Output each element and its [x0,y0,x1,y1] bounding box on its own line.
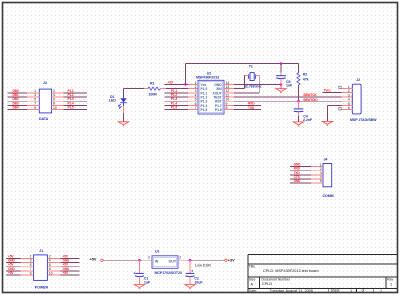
wire XOUT to crystal [234,76,259,93]
wire GND pin14 to C5 ground [234,83,281,85]
U2 right pin numbers 14-8 [226,81,230,110]
resistor R2 [297,64,309,102]
ground under C5 [276,85,286,92]
wire +3V stub to U2 pin1 [164,83,188,85]
svg-text:3: 3 [148,256,150,260]
connector J4 [323,157,334,198]
wire chip pin2 to LED [124,89,149,93]
wire +5V to U1 IN [103,259,152,261]
svg-text:R1: R1 [150,82,155,86]
svg-text:2: 2 [179,256,181,260]
svg-text:TXD: TXD [248,106,255,110]
svg-text:+3V: +3V [228,259,235,263]
svg-text:DATA: DATA [39,117,49,121]
J1 left pin numbers [30,255,32,276]
wire TEST/SBWTCK line [234,96,352,98]
svg-text:CPLD: CPLD [262,282,272,286]
svg-text:POWER: POWER [35,286,49,290]
net labels P1.1-P1.5 at U2 [171,89,177,110]
svg-text:U1: U1 [155,249,160,253]
J4 pin numbers [320,163,322,183]
J1 right net labels [63,254,71,275]
svg-text:10: 10 [53,106,57,110]
capacitor C1 [133,260,151,284]
J3 left wires pins 1,3,5,7,9 [8,93,40,110]
wire LED to ground [123,106,125,122]
junction R2/C4 on RST line [297,100,300,103]
svg-text:MCP1702/SOT23: MCP1702/SOT23 [155,271,182,275]
svg-text:COMM: COMM [323,194,334,198]
svg-text:LED: LED [109,99,116,103]
J4 net labels [294,163,302,183]
MCU U2 MSP430F2013 [195,71,230,114]
capacitor C2 [185,260,203,284]
svg-text:Sheet: Sheet [331,289,340,293]
svg-text:P1.6: P1.6 [215,108,222,112]
J2 pin2 wire TVcc [322,92,352,94]
svg-text:P1.5: P1.5 [171,106,177,110]
junction at pin1 vertical [184,83,187,86]
svg-text:47k: 47k [303,77,309,81]
J2 pin1 stub with no-connect [339,86,353,89]
J1 left wires [6,258,34,275]
capacitor C5 [276,64,293,88]
J3 right net labels P1.1-P1.5 [68,89,74,110]
svg-text:P1.5: P1.5 [201,108,208,112]
svg-text:1uF: 1uF [144,280,151,284]
wire U1 OUT to +3V [178,259,225,261]
svg-text:100R: 100R [149,93,158,97]
U2 right pin stubs [224,84,234,109]
J3 right pin numbers [53,89,57,110]
J2 pin6 stub with no-connect [339,107,353,110]
svg-text:SBWTCK: SBWTCK [303,93,317,97]
U2 pins 3-7 net stubs [164,93,188,110]
connector J2 [350,78,377,122]
ground symbol under D1 [118,122,128,126]
svg-text:Y1: Y1 [249,65,253,69]
connector J3 [39,81,52,121]
ground under J2 pin5 [322,121,332,125]
J4 wires pins 1-5 [290,167,323,183]
svg-text:Tuesday, August 11, 2009: Tuesday, August 11, 2009 [270,289,313,293]
svg-text:1nF: 1nF [286,84,293,88]
svg-text:TVcc: TVcc [324,89,331,93]
connector J1 [34,249,49,290]
resistor R1 [148,82,161,97]
J1 right pin numbers [49,255,53,276]
svg-text:J1: J1 [39,249,43,253]
ground under C2 [185,285,195,289]
svg-text:Size: Size [249,278,256,282]
J2 pin5 wire to ground [327,105,341,121]
svg-text:OUT: OUT [169,260,177,264]
svg-text:CPLD: MSP430F2013 test board: CPLD: MSP430F2013 test board [263,269,319,273]
svg-text:Low ESR: Low ESR [195,264,211,268]
junction GND/C5 [280,83,283,86]
U2 left pin stubs [188,84,198,109]
U2 pin9 P1.7 net stub [234,104,261,106]
crystal stubs [244,75,260,77]
svg-text:J3: J3 [43,81,47,85]
svg-text:1: 1 [380,289,382,293]
J3 right wires pins 2,4,6,8,10 [52,93,87,110]
wire XIN to crystal [234,76,245,89]
J1 left net labels [8,254,16,275]
J2 pin numbers 1-6 [348,85,350,110]
svg-text:+5V: +5V [90,258,97,262]
+3V rail wire [185,63,298,65]
ground under C4 [293,122,303,126]
svg-text:J4: J4 [324,157,328,161]
svg-text:9: 9 [30,271,32,275]
crystal Y1 [244,65,262,89]
svg-text:MSP430F2013: MSP430F2013 [196,76,219,80]
svg-text:IN: IN [155,260,159,264]
TITLE BLOCK [248,255,397,293]
svg-text:SBWTDIO: SBWTDIO [303,98,318,102]
junction rail / C5 [280,62,283,65]
ground under C1 [134,285,144,289]
svg-text:1: 1 [350,289,352,293]
wire R1 to chip pin2 [161,88,199,90]
U2 left pin numbers 1-7 [195,81,197,110]
svg-text:10: 10 [49,271,53,275]
svg-text:GND: GND [294,179,302,183]
svg-text:Document Number: Document Number [262,278,291,282]
power port +5V [90,258,104,262]
junction C2 tap [189,259,192,262]
svg-text:R2: R2 [303,73,308,77]
LED D1 [109,93,127,109]
svg-text:Rev: Rev [387,278,393,282]
regulator U1 MCP1702 [148,249,182,275]
svg-text:9: 9 [34,106,36,110]
svg-text:MSP JTAG/SBW: MSP JTAG/SBW [350,118,377,122]
svg-text:J2: J2 [356,78,360,82]
wire vertical from pin1 up to +3V rail [184,64,186,85]
svg-text:Date:: Date: [249,289,257,293]
svg-text:of: of [362,289,365,293]
wire RST/SBWTDIO line [234,100,352,102]
svg-text:1: 1 [390,282,392,286]
svg-text:Title: Title [249,265,255,269]
U2 pin8 P1.6 net stub [234,109,261,111]
J3 left pin numbers [34,89,36,110]
power port +3V [225,259,235,263]
J3 left net labels DB0-DB4 [13,89,19,110]
svg-text:10uF: 10uF [194,280,203,284]
J1 right wires [47,258,79,275]
junction C1 tap [138,259,141,262]
svg-text:P1.5: P1.5 [68,106,74,110]
capacitor C4 [294,101,313,122]
svg-text:5: 5 [320,179,322,183]
svg-text:DB4: DB4 [13,106,19,110]
